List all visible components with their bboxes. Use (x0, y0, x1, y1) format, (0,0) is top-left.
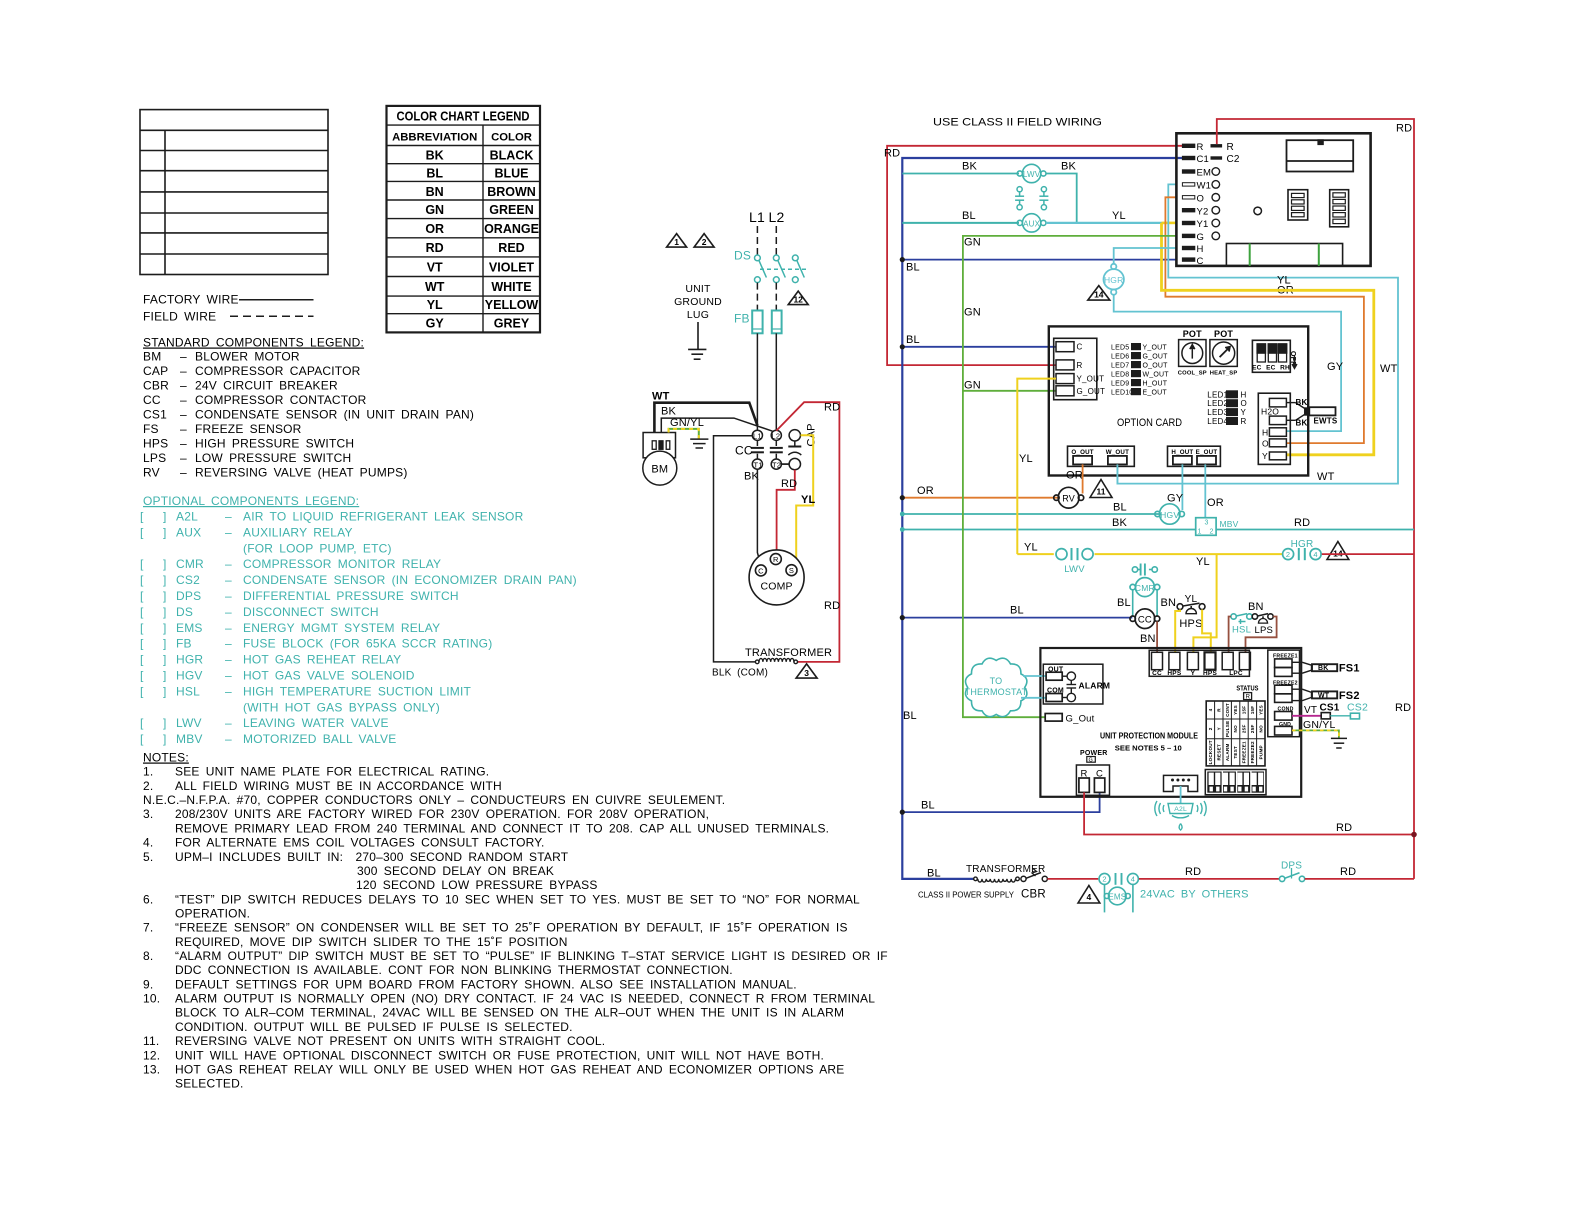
option card outputs O_OUT/W_OUT (1068, 446, 1135, 466)
wire GN/YL (GND to earth) (1292, 730, 1339, 738)
svg-text:–: – (180, 393, 187, 407)
svg-text:PULSE: PULSE (1225, 721, 1230, 737)
svg-text:G_OUT: G_OUT (1143, 353, 1169, 360)
svg-text:EC EC RH: EC EC RH (1252, 365, 1290, 372)
svg-text:3.: 3. (143, 807, 153, 821)
switch LPS (1252, 614, 1273, 624)
svg-text:]: ] (163, 732, 167, 746)
UPM alarm block (1043, 664, 1103, 704)
UPM dip switches (1205, 770, 1266, 795)
svg-text:FACTORY WIRE: FACTORY WIRE (143, 293, 239, 307)
wire BL (to AUX) (902, 222, 1019, 224)
svg-text:AUX: AUX (1023, 219, 1041, 228)
standard components legend (143, 336, 474, 480)
contact HGR (1283, 548, 1322, 560)
svg-text:Y: Y (1262, 451, 1268, 461)
svg-text:R: R (1077, 361, 1083, 370)
warning triangle 4 (1078, 886, 1100, 904)
wire YL (HPS right to UPM) (1202, 610, 1211, 653)
svg-text:HPS: HPS (1203, 670, 1217, 677)
warning triangle 2 (694, 234, 714, 248)
wire (to A2L sensor) (1180, 786, 1182, 803)
svg-text:–: – (225, 525, 232, 539)
svg-text:FUSE BLOCK (FOR 65KA SCCR RATI: FUSE BLOCK (FOR 65KA SCCR RATING) (243, 637, 492, 651)
svg-text:24VAC BY OTHERS: 24VAC BY OTHERS (1140, 889, 1249, 901)
svg-text:12.: 12. (143, 1048, 160, 1062)
svg-text:3: 3 (804, 668, 809, 678)
svg-text:BL: BL (426, 166, 443, 180)
svg-text:7.: 7. (143, 921, 153, 935)
terminal Y1 (1182, 221, 1194, 224)
warning triangle 11 (1090, 480, 1112, 498)
potentiometer HEAT_SP (1210, 340, 1237, 367)
wire RD (R to right bus) (1217, 119, 1414, 879)
svg-text:GY: GY (1327, 361, 1344, 373)
svg-text:GY: GY (1167, 493, 1184, 505)
wire OR (E_OUT to MBV) (1204, 464, 1206, 517)
svg-text:SEE NOTES 5 – 10: SEE NOTES 5 – 10 (1115, 744, 1182, 753)
svg-text:[: [ (140, 510, 144, 524)
svg-text:[: [ (140, 557, 144, 571)
svg-text:–: – (225, 637, 232, 651)
svg-text:T1: T1 (754, 460, 763, 469)
svg-text:BL: BL (921, 800, 935, 812)
svg-text:ALL FIELD WIRING MUST BE IN AC: ALL FIELD WIRING MUST BE IN ACCORDANCE W… (175, 779, 502, 793)
svg-text:25F: 25F (1250, 725, 1255, 734)
board hole (1254, 207, 1262, 215)
svg-text:H: H (1262, 427, 1268, 437)
ground symbol (BM) (690, 439, 708, 448)
svg-text:RD: RD (1294, 517, 1310, 529)
svg-text:]: ] (163, 573, 167, 587)
svg-text:BL: BL (906, 262, 920, 274)
svg-text:–: – (180, 451, 187, 465)
svg-text:FS2: FS2 (1339, 690, 1360, 702)
svg-text:GN: GN (964, 307, 981, 319)
svg-text:CBR: CBR (1021, 889, 1046, 901)
hot gas valve HGV (1155, 504, 1185, 524)
svg-text:YL: YL (427, 298, 443, 312)
svg-text:[: [ (140, 589, 144, 603)
svg-text:BK: BK (661, 406, 677, 418)
svg-text:Y_OUT: Y_OUT (1077, 375, 1105, 384)
svg-text:–: – (225, 684, 232, 698)
svg-text:REMOVE PRIMARY LEAD FROM 240 T: REMOVE PRIMARY LEAD FROM 240 TERMINAL AN… (175, 821, 829, 835)
svg-text:2: 2 (1102, 875, 1106, 884)
wire RD (DPS to bus) (1305, 878, 1414, 880)
svg-text:2: 2 (1286, 550, 1290, 559)
svg-text:300 SECOND DELAY ON BREAK: 300 SECOND DELAY ON BREAK (357, 864, 554, 878)
svg-text:NOTES:: NOTES: (143, 751, 189, 765)
svg-text:Y: Y (1216, 727, 1221, 730)
svg-text:FREEZE1: FREEZE1 (1242, 741, 1247, 763)
svg-text:THERMOSTAT: THERMOSTAT (965, 687, 1028, 697)
svg-text:DPS: DPS (1281, 861, 1302, 872)
wire YL (LWV to HGR contact) (1095, 553, 1283, 555)
svg-text:CLASS II POWER SUPPLY: CLASS II POWER SUPPLY (918, 891, 1015, 900)
svg-text:C1: C1 (1197, 154, 1210, 165)
svg-text:L1: L1 (753, 432, 762, 441)
svg-text:LPC: LPC (1229, 670, 1243, 677)
svg-text:YL: YL (801, 494, 816, 506)
svg-text:C: C (1077, 343, 1083, 352)
wire BK (LWV to AUX line) (1046, 174, 1077, 223)
motorized ball valve MBV (1196, 518, 1216, 536)
color chart legend table (387, 106, 541, 333)
contact CMR (1132, 564, 1157, 576)
warning triangle 14 (1088, 286, 1110, 301)
svg-text:BK: BK (1296, 398, 1308, 407)
wire GY (HGR to H2O H) (1114, 295, 1341, 431)
svg-text:CONDENSATE SENSOR (IN UNIT DRA: CONDENSATE SENSOR (IN UNIT DRAIN PAN) (195, 408, 474, 422)
svg-text:RD: RD (781, 478, 797, 490)
contactor coil CC (1130, 609, 1160, 629)
title block table (empty) (140, 110, 328, 275)
svg-text:USE CLASS II FIELD WIRING: USE CLASS II FIELD WIRING (933, 117, 1102, 129)
svg-text:LED7: LED7 (1111, 362, 1129, 369)
svg-text:3: 3 (1205, 520, 1209, 527)
wire YL (to UPM Y) (1193, 554, 1216, 652)
svg-text:A2L: A2L (1174, 806, 1187, 813)
wire RD (CAP to COMP R) (777, 470, 795, 554)
wire BL left bus (902, 158, 1182, 879)
svg-text:FS: FS (143, 422, 159, 436)
svg-text:[: [ (140, 637, 144, 651)
svg-text:HPS: HPS (1167, 670, 1181, 677)
svg-text:GROUND: GROUND (674, 296, 722, 308)
option card outputs H_OUT/E_OUT (1168, 446, 1221, 466)
svg-text:–: – (180, 422, 187, 436)
svg-text:HOT GAS REHEAT RELAY WILL ONLY: HOT GAS REHEAT RELAY WILL ONLY BE USED W… (175, 1063, 844, 1077)
svg-text:–: – (225, 573, 232, 587)
switch HSL (1231, 614, 1252, 624)
svg-text:TEST: TEST (1233, 746, 1238, 759)
wire BLK COM (L1 to transformer) (714, 436, 757, 662)
svg-text:RD: RD (1340, 866, 1356, 878)
svg-text:25F: 25F (1242, 725, 1247, 734)
svg-text:“ALARM OUTPUT” DIP SWITCH MUST: “ALARM OUTPUT” DIP SWITCH MUST BE SET TO… (175, 949, 888, 963)
svg-text:FS1: FS1 (1339, 663, 1360, 675)
compressor COMP (749, 550, 804, 605)
terminal screw (1212, 206, 1220, 214)
contact EMS (1099, 873, 1138, 885)
svg-text:SELECTED.: SELECTED. (175, 1077, 244, 1091)
wire RD (EMS to DPS) (1139, 878, 1280, 880)
svg-text:–: – (225, 605, 232, 619)
svg-text:WT: WT (425, 280, 445, 294)
svg-text:1: 1 (674, 237, 679, 247)
svg-text:LED5: LED5 (1111, 344, 1129, 351)
warning triangle 1 (667, 234, 687, 248)
svg-text:(FOR LOOP PUMP, ETC): (FOR LOOP PUMP, ETC) (243, 541, 392, 555)
A2L leak sensor (1155, 801, 1206, 830)
terminal O (1182, 196, 1194, 199)
svg-text:H_OUT: H_OUT (1143, 380, 1168, 387)
svg-text:14: 14 (1094, 290, 1104, 300)
svg-text:4: 4 (1208, 708, 1213, 711)
EWTS sensor plug (1286, 403, 1335, 421)
svg-text:COLOR CHART LEGEND: COLOR CHART LEGEND (397, 109, 530, 124)
svg-text:G: G (1197, 232, 1205, 243)
warning triangle 3 (796, 664, 817, 678)
terminal W1 (1182, 183, 1194, 186)
svg-text:]: ] (163, 621, 167, 635)
wire (T2 to CAP) (781, 463, 789, 465)
wire BN (CMR-CC right) (1156, 590, 1158, 616)
svg-text:RD: RD (1395, 702, 1411, 714)
svg-text:DS: DS (734, 249, 751, 263)
circuit breaker CBR (1021, 869, 1048, 882)
svg-text:RD: RD (824, 402, 840, 414)
relay LWV (1017, 164, 1046, 182)
svg-text:OPTIONAL COMPONENTS LEGEND:: OPTIONAL COMPONENTS LEGEND: (143, 494, 359, 508)
svg-text:1.: 1. (143, 765, 153, 779)
relay EMS (1104, 885, 1133, 913)
svg-text:CS1: CS1 (1320, 703, 1340, 714)
svg-text:12: 12 (793, 294, 803, 304)
svg-text:LED1: LED1 (1207, 390, 1228, 399)
svg-text:TO: TO (990, 676, 1003, 686)
svg-text:DS: DS (176, 605, 193, 619)
terminal G_OUT (1056, 386, 1074, 396)
wire H (to HGR) (1114, 248, 1177, 264)
svg-text:120 SECOND LOW PRESSURE BYPASS: 120 SECOND LOW PRESSURE BYPASS (356, 878, 598, 892)
svg-text:24V CIRCUIT BREAKER: 24V CIRCUIT BREAKER (195, 378, 338, 392)
svg-text:Y: Y (1241, 408, 1247, 417)
svg-text:]: ] (163, 605, 167, 619)
thermostat terminal board (1176, 133, 1370, 266)
svg-text:H: H (1197, 244, 1204, 255)
disconnect switch DS (755, 255, 807, 283)
wire (MBV to red bus) (1216, 529, 1414, 531)
UPM dip switch settings matrix (1206, 701, 1265, 766)
svg-text:DPS: DPS (176, 589, 201, 603)
ground symbol (UPM) (1331, 738, 1347, 748)
svg-text:MBV: MBV (1220, 519, 1239, 529)
condensate sensor CS2 (1350, 713, 1359, 719)
wire YL (AUX to Y1) (1046, 222, 1162, 224)
option card H2O terminal block (1258, 393, 1290, 464)
svg-text:–: – (180, 466, 187, 480)
svg-text:ORANGE: ORANGE (484, 222, 539, 236)
svg-text:9.: 9. (143, 977, 153, 991)
svg-text:REQUIRED, MOVE DIP SWITCH SLID: REQUIRED, MOVE DIP SWITCH SLIDER TO THE … (175, 935, 568, 949)
svg-text:Y_OUT: Y_OUT (1143, 344, 1168, 351)
terminal C1 (1182, 156, 1194, 159)
svg-text:R: R (1197, 142, 1204, 153)
ground symbol (unit ground lug) (688, 322, 706, 359)
svg-text:CS1: CS1 (143, 408, 167, 422)
svg-text:H_OUT: H_OUT (1171, 449, 1193, 456)
contact (LWV aux) (1015, 187, 1024, 210)
svg-text:O_OUT: O_OUT (1071, 449, 1093, 456)
svg-text:BN: BN (1161, 597, 1177, 609)
svg-text:RV: RV (143, 466, 160, 480)
svg-text:BM: BM (651, 464, 668, 476)
wire GN (to option G_OUT) (963, 390, 1056, 392)
svg-text:LWV: LWV (1023, 170, 1041, 179)
svg-text:G_OUT: G_OUT (1077, 387, 1106, 396)
svg-text:–: – (180, 349, 187, 363)
condensate sensor CS1 (1321, 713, 1330, 719)
terminal Y_OUT (1056, 374, 1074, 384)
svg-text:COLOR: COLOR (491, 132, 532, 144)
optional components legend (140, 494, 577, 746)
svg-text:L1: L1 (749, 209, 765, 225)
svg-text:POT: POT (1183, 329, 1202, 339)
svg-text:YL: YL (1196, 556, 1210, 568)
contact (LWV aux) (1039, 187, 1048, 210)
svg-text:CC: CC (735, 444, 753, 458)
terminal EM (1182, 170, 1194, 173)
board dip switch B (1330, 190, 1349, 227)
warning triangle 12 (788, 291, 808, 305)
svg-text:WT: WT (1317, 471, 1335, 483)
wire BL to C terminal (902, 259, 1176, 261)
svg-text:–: – (180, 364, 187, 378)
svg-text:AUXILIARY RELAY: AUXILIARY RELAY (243, 525, 353, 539)
svg-text:10.: 10. (143, 992, 160, 1006)
option card board (1049, 326, 1308, 475)
svg-text:[: [ (140, 669, 144, 683)
svg-text:FB: FB (734, 312, 750, 326)
svg-text:C: C (758, 566, 764, 575)
contact LWV (1056, 548, 1093, 560)
svg-text:]: ] (163, 510, 167, 524)
terminal R (1211, 144, 1223, 147)
wire (CS1 to CS2) (1330, 715, 1350, 717)
svg-text:BK: BK (1318, 665, 1329, 672)
svg-text:HGR: HGR (1291, 539, 1314, 550)
svg-text:O: O (1197, 194, 1205, 205)
svg-text:AIR TO LIQUID REFRIGERANT LEAK: AIR TO LIQUID REFRIGERANT LEAK SENSOR (243, 510, 524, 524)
svg-text:GN/YL: GN/YL (1303, 719, 1336, 731)
svg-text:“FREEZE SENSOR” ON CONDENSER W: “FREEZE SENSOR” ON CONDENSER WILL BE SET… (175, 921, 848, 935)
svg-text:YL: YL (1185, 594, 1198, 605)
svg-text:NO: NO (1233, 725, 1238, 733)
wire YL (CAP to COMP S) (796, 435, 813, 564)
svg-text:EM: EM (1197, 168, 1212, 179)
svg-text:RD: RD (1336, 822, 1352, 834)
svg-text:CC: CC (1138, 615, 1152, 626)
svg-text:2.: 2. (143, 779, 153, 793)
reversing valve RV (1054, 487, 1084, 508)
svg-text:BLACK: BLACK (490, 149, 534, 163)
switch DPS (1279, 868, 1304, 882)
wire BL(teal) to HGV (902, 513, 1159, 515)
svg-text:–: – (180, 378, 187, 392)
svg-text:WT: WT (1380, 363, 1398, 375)
junction (900, 495, 905, 500)
svg-text:4.: 4. (143, 836, 153, 850)
svg-text:2: 2 (1208, 727, 1213, 730)
wire FB L2 to contactor (775, 333, 777, 430)
wire BL to CC coil (902, 617, 1132, 619)
svg-text:YL: YL (1277, 275, 1291, 287)
svg-text:CBR: CBR (143, 378, 169, 392)
svg-text:HGR: HGR (176, 653, 203, 667)
UPM A2L connector (1164, 775, 1198, 791)
svg-text:FREEZE SENSOR: FREEZE SENSOR (195, 422, 302, 436)
svg-text:W1: W1 (1197, 181, 1212, 192)
wire OR to RV (902, 497, 1057, 499)
svg-text:[: [ (140, 605, 144, 619)
svg-text:A2L: A2L (176, 510, 198, 524)
svg-text:–: – (225, 510, 232, 524)
svg-text:–: – (225, 621, 232, 635)
wire BN (LPS to UPM LPC) (1246, 617, 1277, 653)
junction (1411, 832, 1417, 838)
wire RD (HGR to bus) (1322, 553, 1414, 555)
svg-text:LED4: LED4 (1207, 417, 1228, 426)
option card LEDs 5-10 (1111, 343, 1169, 396)
svg-text:W_OUT: W_OUT (1106, 449, 1129, 456)
svg-text:YES: YES (1258, 705, 1263, 715)
svg-text:BK: BK (1061, 161, 1077, 173)
wire RD (CBR to EMS contact) (1047, 878, 1098, 880)
TO THERMOSTAT cloud (966, 658, 1027, 716)
svg-text:–: – (225, 557, 232, 571)
svg-text:LED10: LED10 (1111, 389, 1133, 396)
svg-text:–: – (225, 732, 232, 746)
svg-text:CONDENSATE SENSOR (IN ECONOMIZ: CONDENSATE SENSOR (IN ECONOMIZER DRAIN P… (243, 573, 577, 587)
wire WT (BM to L1) (654, 403, 757, 433)
svg-text:BL: BL (903, 710, 917, 722)
svg-text:BLUE: BLUE (494, 166, 528, 180)
svg-text:GREEN: GREEN (489, 203, 533, 217)
svg-text:RV: RV (1062, 494, 1075, 504)
svg-text:R: R (1227, 142, 1234, 153)
svg-text:Y: Y (1191, 670, 1196, 677)
svg-text:[: [ (140, 573, 144, 587)
svg-text:YELLOW: YELLOW (485, 298, 539, 312)
svg-text:REVERSING VALVE NOT PRESENT ON: REVERSING VALVE NOT PRESENT ON UNITS WIT… (175, 1034, 605, 1048)
svg-text:H: H (1241, 390, 1247, 399)
svg-text:COOL_SP: COOL_SP (1178, 371, 1207, 377)
factory wire legend (143, 293, 239, 324)
svg-text:GREY: GREY (494, 317, 530, 331)
wire RD (UPM R to bus) (1084, 792, 1414, 834)
svg-text:HGV: HGV (1160, 510, 1179, 520)
svg-text:4: 4 (1131, 875, 1135, 884)
svg-text:ALARM: ALARM (1225, 744, 1230, 762)
svg-text:G: G (1089, 758, 1093, 764)
svg-text:C2: C2 (1227, 154, 1240, 165)
svg-text:]: ] (163, 589, 167, 603)
terminal C (1056, 342, 1074, 352)
svg-text:[: [ (140, 684, 144, 698)
svg-text:–: – (225, 589, 232, 603)
wire BN (HSL to UPM LPC) (1229, 617, 1231, 653)
fuse block FB (752, 311, 781, 334)
svg-text:8.: 8. (143, 949, 153, 963)
svg-text:VIOLET: VIOLET (489, 261, 535, 275)
svg-text:CC: CC (143, 393, 161, 407)
svg-text:TRANSFORMER: TRANSFORMER (745, 647, 832, 659)
terminal screw (1212, 232, 1220, 240)
svg-text:4: 4 (1313, 550, 1317, 559)
svg-text:HGR: HGR (1104, 275, 1124, 285)
wire YL (to option Y_OUT) (1017, 379, 1056, 554)
svg-text:LWV: LWV (1064, 564, 1085, 575)
svg-text:DDC CONNECTION IS AVAILABLE. C: DDC CONNECTION IS AVAILABLE. CONT FOR NO… (175, 963, 733, 977)
option card LEDs 1-4 (1207, 390, 1247, 426)
svg-text:O: O (1262, 438, 1269, 448)
wire BL to option card C (902, 346, 1056, 348)
UPM freeze sensor block (1268, 650, 1300, 737)
wire BK (to LWV) (902, 173, 1019, 175)
svg-text:PUMP: PUMP (1258, 745, 1263, 759)
